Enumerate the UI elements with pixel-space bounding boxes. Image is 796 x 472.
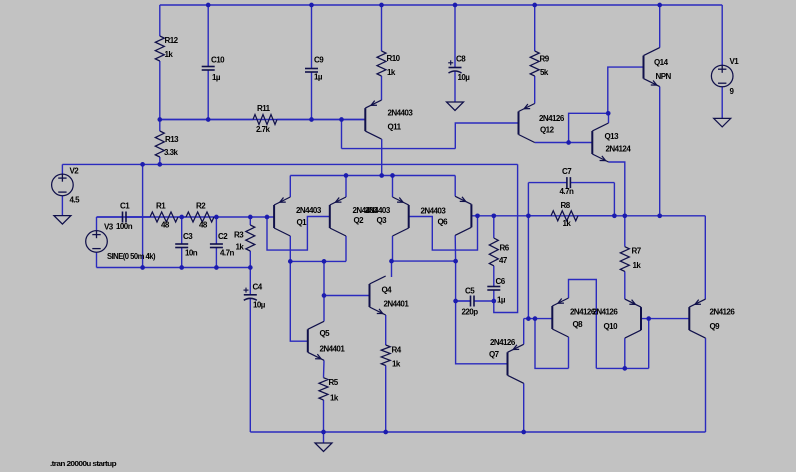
svg-text:Q2: Q2: [354, 216, 365, 225]
transistor Q14: [644, 48, 660, 87]
svg-text:2N4401: 2N4401: [384, 299, 410, 308]
wire C7 right riser: [613, 183, 615, 216]
svg-text:R5: R5: [329, 378, 339, 387]
svg-text:C8: C8: [456, 54, 466, 63]
resistor R10: [377, 5, 386, 100]
wire R11 node line: [160, 119, 365, 121]
junction Q8 base tie: [533, 316, 538, 321]
capacitor C2: [210, 244, 223, 248]
svg-text:5k: 5k: [540, 68, 549, 77]
junction R12/R13 node: [157, 117, 162, 122]
junction Q10 base tie: [646, 316, 651, 321]
wire Q1 collector drop: [289, 236, 291, 261]
svg-text:Q14: Q14: [654, 58, 669, 67]
svg-text:Q9: Q9: [710, 322, 721, 331]
junction Q11 base tap: [339, 117, 344, 122]
transistor Q12: [519, 104, 535, 143]
resistor R13: [155, 120, 164, 165]
junction C7 right: [612, 213, 617, 218]
transistor Q10: [625, 299, 641, 338]
junction C9 bottom: [309, 117, 314, 122]
svg-text:48: 48: [199, 220, 208, 229]
capacitor C6: [487, 287, 500, 302]
wire Q9 collector drop: [705, 338, 707, 432]
wire C5 node to Q7 base: [456, 301, 508, 364]
wire input node line: [97, 216, 275, 218]
svg-text:NPN: NPN: [656, 72, 672, 81]
junction C10 bottom: [206, 117, 211, 122]
wire Q10 base tie riser: [648, 319, 650, 369]
svg-text:.tran 20000u startup: .tran 20000u startup: [50, 459, 117, 468]
svg-text:1k: 1k: [165, 50, 174, 59]
wire Q6 emitter riser: [454, 176, 456, 197]
svg-text:48: 48: [161, 220, 170, 229]
wire Q14 collector riser: [659, 5, 661, 48]
wire R4 bottom lead: [385, 366, 387, 433]
capacitor C10: [202, 5, 215, 120]
junction R4 bottom: [383, 430, 388, 435]
wire Q12 collector line: [535, 142, 593, 144]
wire mirror rail Q10: [596, 367, 648, 369]
junction C9 top: [309, 3, 314, 8]
transistor Q1: [274, 197, 290, 236]
wire V1 top lead: [721, 5, 723, 65]
junction Q6 collector node: [453, 259, 458, 264]
svg-text:C7: C7: [562, 167, 572, 176]
wire Q5 collector riser: [323, 261, 325, 321]
voltage source V1: [711, 65, 733, 87]
svg-text:V3: V3: [104, 222, 114, 231]
svg-text:2N4401: 2N4401: [320, 344, 346, 353]
resistor R7: [620, 216, 629, 299]
wire Q6 collector drop: [454, 235, 456, 261]
wire Q1 collector to Q5 base: [290, 261, 308, 341]
junction Q4 base tap: [322, 293, 327, 298]
svg-text:1k: 1k: [633, 261, 642, 270]
svg-text:Q3: Q3: [377, 216, 388, 225]
wire bias feed vertical: [142, 164, 144, 267]
wire C8 ground lead: [454, 71, 456, 102]
svg-text:1k: 1k: [563, 219, 572, 228]
wire Q4 emitter drop: [385, 315, 387, 345]
svg-text:1k: 1k: [330, 393, 339, 402]
transistor Q2: [330, 197, 346, 236]
wire Q8 emitter loop: [569, 280, 597, 369]
wire Q7 feed riser: [527, 216, 529, 319]
wire Q12 emitter riser: [534, 76, 536, 104]
junction Q3/Q4 collectors: [389, 259, 394, 264]
svg-text:R8: R8: [561, 201, 571, 210]
junction C10 top: [206, 3, 211, 8]
junction R2/R3 node: [214, 215, 219, 220]
junction Q13 base: [566, 140, 571, 145]
ground under V3-rail: [315, 443, 332, 452]
ground under C8: [447, 102, 464, 111]
junction Q7 feed: [526, 316, 531, 321]
resistor R3: [246, 217, 255, 268]
svg-text:R12: R12: [165, 36, 179, 45]
svg-text:C6: C6: [496, 277, 506, 286]
svg-text:10n: 10n: [185, 248, 198, 257]
svg-text:1k: 1k: [392, 359, 401, 368]
resistor R4: [381, 345, 390, 366]
wire Q10-Q9 base line: [641, 318, 689, 320]
junction R10 top: [379, 3, 384, 8]
wire C7 left riser: [527, 183, 529, 216]
junction R6 top: [491, 213, 496, 218]
svg-text:2.7k: 2.7k: [256, 125, 270, 134]
junction Q10 collector: [622, 366, 627, 371]
wire V1 bottom lead: [721, 87, 723, 119]
wire Q4 base line: [324, 295, 370, 297]
wire R5 bottom lead: [323, 400, 325, 432]
wire Q8 collector tie-down: [535, 319, 569, 369]
svg-text:R13: R13: [165, 135, 179, 144]
transistor Q13: [592, 123, 608, 162]
wire Q11 base tap riser: [341, 120, 343, 149]
resistor R2: [182, 212, 217, 222]
junction C7/Q7 tap: [526, 213, 531, 218]
svg-text:Q10: Q10: [604, 322, 619, 331]
junction Q14 collector: [657, 3, 662, 8]
voltage source V3: [86, 231, 108, 253]
svg-text:C4: C4: [253, 282, 263, 291]
resistor R1: [126, 212, 182, 222]
junction C2 bottom: [214, 265, 219, 270]
svg-text:C10: C10: [211, 55, 225, 64]
capacitor C8: [448, 5, 461, 73]
svg-text:R2: R2: [196, 201, 206, 210]
wire Q12 base riser: [455, 123, 518, 149]
junction bias rail A: [140, 162, 145, 167]
resistor R5: [319, 378, 328, 400]
junction ground / R5: [321, 430, 326, 435]
svg-text:1k: 1k: [236, 242, 245, 251]
svg-text:2N4403: 2N4403: [365, 206, 391, 215]
capacitor C3: [175, 244, 188, 248]
wire long bias rail: [62, 163, 517, 165]
junction Q1 base: [265, 215, 270, 220]
wire V3 bottom lead: [96, 252, 98, 267]
junction C3 bottom: [179, 265, 184, 270]
svg-text:C2: C2: [218, 232, 228, 241]
svg-text:4.7n: 4.7n: [220, 248, 234, 257]
svg-text:2N4126: 2N4126: [710, 307, 736, 316]
svg-text:Q4: Q4: [382, 285, 393, 294]
svg-text:100n: 100n: [116, 222, 133, 231]
resistor R6: [489, 216, 498, 287]
wire Q14 base line: [608, 67, 644, 113]
svg-text:2N4403: 2N4403: [296, 206, 322, 215]
svg-text:2N4403: 2N4403: [388, 108, 414, 117]
wire C5 left lead line: [456, 300, 471, 302]
ground under V2: [54, 216, 71, 225]
svg-text:Q12: Q12: [540, 125, 555, 134]
svg-text:220p: 220p: [462, 307, 479, 316]
svg-text:SINE(0 50m 4k): SINE(0 50m 4k): [107, 252, 156, 261]
transistor Q8: [552, 298, 568, 337]
wire Q1 emitter riser: [289, 176, 291, 198]
resistor R9: [530, 5, 539, 76]
wire bottom rail: [250, 431, 705, 433]
wire Q13 collector loop: [569, 113, 609, 142]
svg-text:2N4124: 2N4124: [606, 144, 632, 153]
junction R13 bottom: [157, 162, 162, 167]
wire V2 top lead: [61, 164, 63, 174]
wire Q5 emitter drop: [323, 360, 326, 377]
wire Q9 emitter riser: [704, 216, 706, 299]
wire output feedback bus: [471, 215, 705, 217]
svg-text:C9: C9: [314, 55, 324, 64]
wire Q8 base line: [524, 318, 553, 320]
svg-text:Q5: Q5: [320, 329, 331, 338]
transistor Q6: [455, 196, 471, 235]
svg-text:V1: V1: [730, 57, 740, 66]
wire second-stage line B2: [392, 260, 456, 262]
svg-text:1µ: 1µ: [497, 295, 506, 304]
resistor R12: [155, 36, 164, 120]
junction Q7 collector: [521, 430, 526, 435]
junction Q5 collector node: [322, 259, 327, 264]
transistor Q5: [308, 321, 324, 360]
svg-text:2N4403: 2N4403: [421, 206, 447, 215]
svg-text:2N4126: 2N4126: [593, 307, 619, 316]
resistor R11: [160, 115, 365, 125]
capacitor C4: [244, 268, 257, 301]
svg-text:10µ: 10µ: [458, 73, 471, 82]
wire C3 branch: [181, 217, 183, 244]
wire R12 top lead from rail: [159, 5, 161, 36]
svg-text:1µ: 1µ: [212, 73, 221, 82]
wire first-stage mirror line B1: [290, 260, 346, 262]
svg-text:R1: R1: [156, 201, 166, 210]
capacitor C9: [305, 5, 318, 120]
svg-text:1µ: 1µ: [314, 72, 323, 81]
transistor Q3: [393, 197, 409, 236]
svg-text:R11: R11: [257, 104, 271, 113]
wire C3 bottom lead: [181, 248, 183, 268]
svg-text:Q6: Q6: [438, 217, 449, 226]
wire input ground-side rail: [97, 267, 251, 269]
wire Q3 base loop: [409, 216, 478, 250]
wire V3 top lead: [96, 217, 98, 231]
svg-text:Q7: Q7: [489, 350, 500, 359]
junction Q1 collector node: [288, 259, 293, 264]
svg-text:R7: R7: [632, 246, 642, 255]
junction R7 top: [622, 213, 627, 218]
svg-text:47: 47: [499, 256, 508, 265]
junction bias-input rail: [140, 265, 145, 270]
junction R9 top: [532, 3, 537, 8]
wire C2 bottom lead: [215, 248, 217, 268]
junction C8 top: [453, 3, 458, 8]
junction Q14 emitter out: [657, 213, 662, 218]
wire Q7 emitter riser: [523, 319, 525, 345]
ground under V1: [714, 118, 731, 127]
svg-text:2N4126: 2N4126: [539, 114, 565, 123]
svg-text:10µ: 10µ: [253, 300, 266, 309]
svg-text:R4: R4: [392, 345, 402, 354]
transistor Q7: [508, 344, 524, 383]
wire Q10 collector drop: [624, 338, 626, 368]
junction C4 top: [248, 265, 253, 270]
transistor Q4: [370, 276, 386, 315]
wire C2 branch: [215, 217, 217, 244]
svg-text:2N4126: 2N4126: [490, 338, 516, 347]
capacitor C5: [456, 296, 494, 307]
svg-text:4.5: 4.5: [70, 195, 81, 204]
wire Q2 emitter riser: [345, 176, 347, 198]
svg-text:C1: C1: [120, 201, 130, 210]
junction Q3 emitter: [390, 173, 395, 178]
svg-text:R6: R6: [500, 243, 510, 252]
junction R1/R2 node: [179, 215, 184, 220]
wire ground stub bottom: [323, 432, 325, 443]
wire bias rail drop to C5/C6 node: [494, 164, 518, 312]
svg-text:Q8: Q8: [573, 320, 584, 329]
wire top supply rail: [160, 4, 722, 6]
svg-text:R9: R9: [540, 54, 550, 63]
wire Q1 base loop: [267, 217, 330, 251]
voltage source V2: [52, 174, 74, 196]
wire Q11 collector riser: [381, 139, 383, 175]
wire Q3 emitter riser: [392, 176, 394, 198]
svg-text:3.3k: 3.3k: [164, 148, 178, 157]
svg-text:4.7n: 4.7n: [560, 187, 574, 196]
wire Q8 collector drop: [568, 337, 570, 368]
junction C5 left: [453, 299, 458, 304]
wire Q14 emitter riser: [659, 87, 661, 216]
resistor R8: [528, 211, 614, 221]
junction C5/C6 node: [491, 299, 496, 304]
wire Q7 collector drop: [523, 383, 525, 432]
wire C4 bottom lead: [249, 299, 251, 433]
junction Q6 base loop: [475, 213, 480, 218]
wire Q11 collector to Q12 base line: [342, 148, 456, 150]
junction Q11 collector feed: [379, 173, 384, 178]
transistor Q11: [365, 100, 381, 139]
svg-text:Q11: Q11: [388, 122, 402, 131]
svg-text:C3: C3: [183, 232, 193, 241]
svg-text:C5: C5: [465, 286, 475, 295]
capacitor C1: [97, 212, 151, 223]
junction Q14 base / Q13 collector: [606, 111, 611, 116]
wire Q2 collector drop: [345, 236, 347, 261]
capacitor C7: [528, 177, 614, 188]
transistor Q9: [689, 299, 705, 338]
wire Q6 collector to C5 node: [455, 261, 457, 301]
svg-text:Q13: Q13: [605, 132, 620, 141]
svg-text:Q1: Q1: [297, 218, 308, 227]
junction R3 top: [248, 215, 253, 220]
svg-text:1k: 1k: [387, 68, 396, 77]
svg-text:V2: V2: [70, 166, 80, 175]
wire Q3 collector drop: [392, 236, 394, 261]
svg-text:R3: R3: [234, 230, 244, 239]
junction Q2 emitter: [344, 173, 349, 178]
wire V2 bottom lead: [61, 196, 63, 216]
svg-text:R10: R10: [387, 54, 401, 63]
wire Q4 collector riser: [391, 261, 393, 277]
wire quad emitter rail: [290, 175, 455, 177]
wire Q13 emitter link: [609, 162, 625, 216]
